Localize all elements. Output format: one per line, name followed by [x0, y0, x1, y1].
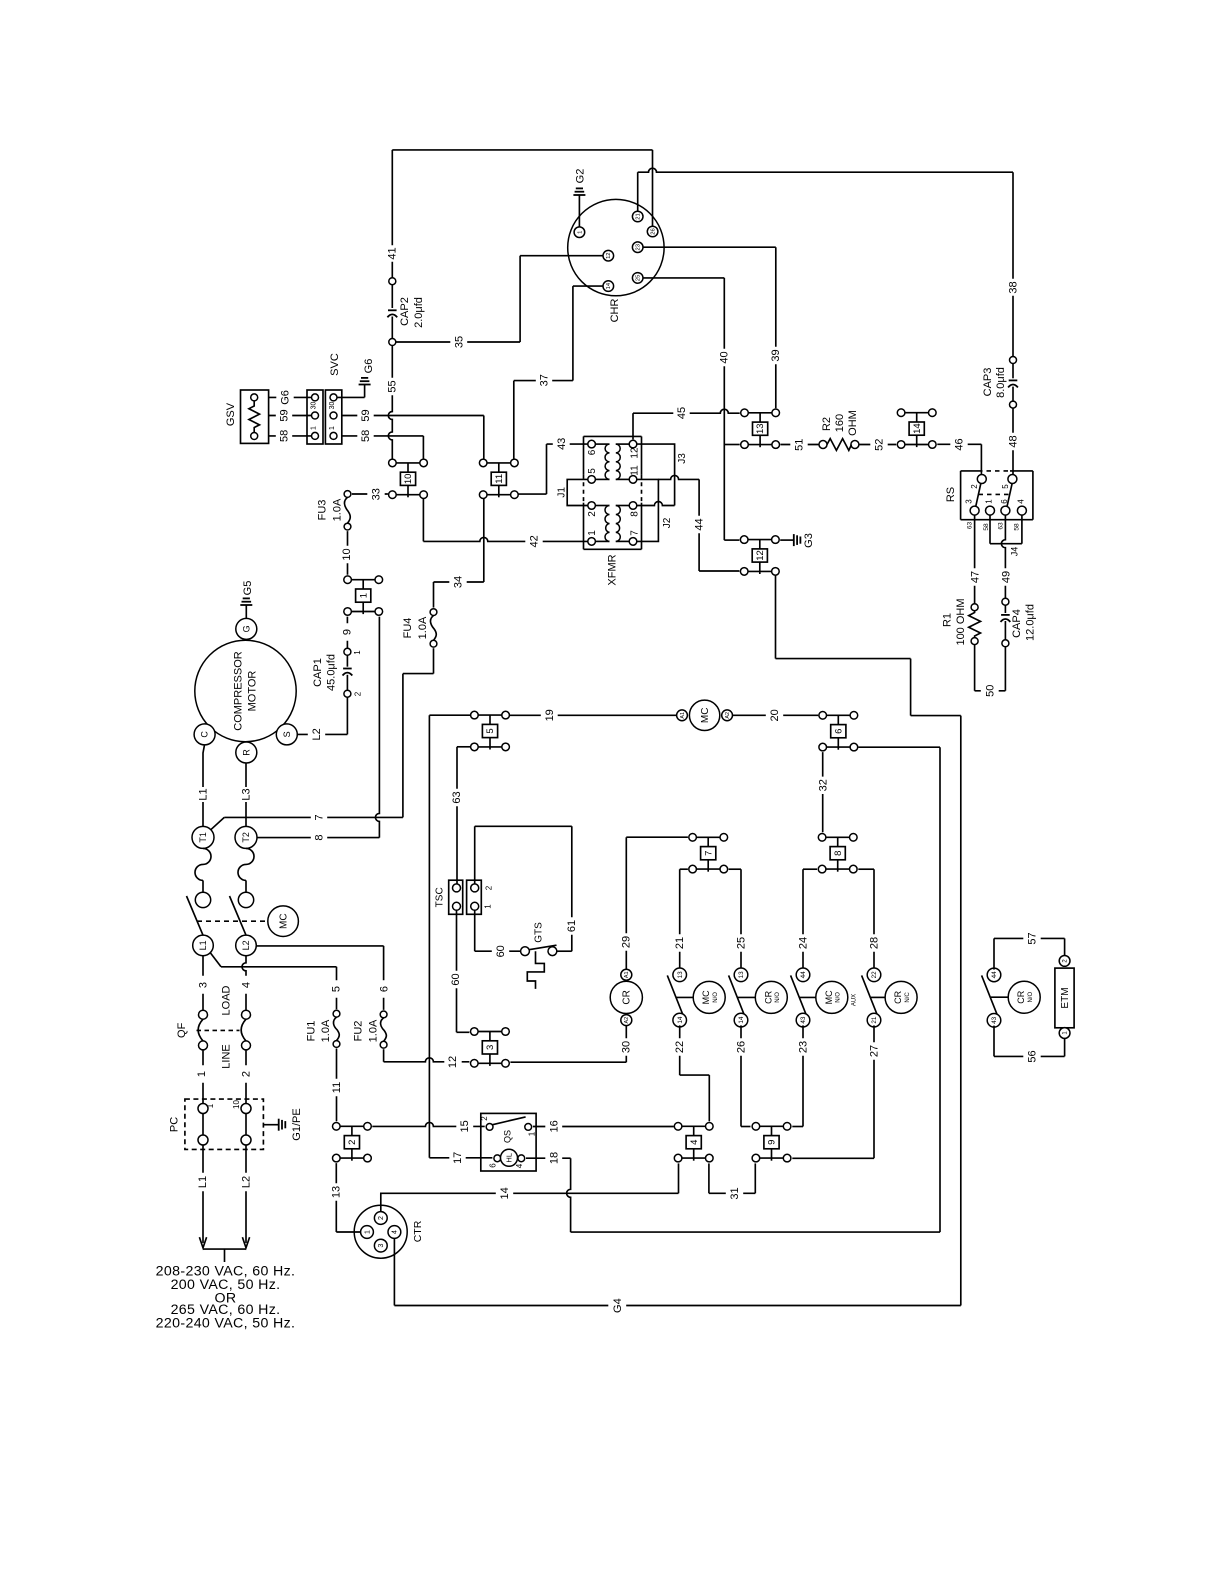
svg-text:14: 14	[606, 282, 612, 289]
svg-text:N/O: N/O	[1028, 992, 1034, 1003]
svg-text:XFMR: XFMR	[607, 554, 619, 585]
terminal block 12	[748, 539, 772, 541]
fuse FU2	[381, 1018, 387, 1042]
svg-text:QF: QF	[176, 1022, 188, 1038]
svg-text:7: 7	[314, 814, 326, 820]
XFMR pin 12	[629, 440, 637, 448]
svg-text:1: 1	[206, 1103, 215, 1108]
svg-text:AUX: AUX	[851, 994, 857, 1006]
svg-text:58: 58	[279, 430, 291, 442]
svg-text:14: 14	[738, 1016, 745, 1024]
svg-text:9: 9	[767, 1140, 778, 1145]
svg-text:1: 1	[364, 1230, 371, 1234]
ground G3	[793, 534, 795, 546]
svg-text:14: 14	[677, 1016, 684, 1024]
ETM pin 2	[1059, 956, 1070, 967]
wire 40	[643, 277, 725, 279]
terminal block 6	[827, 714, 851, 716]
svg-text:24: 24	[797, 937, 809, 949]
RS pin 4	[1017, 506, 1026, 515]
wire L1 supply	[202, 1145, 204, 1243]
svg-text:59: 59	[360, 409, 372, 421]
wire 59	[342, 415, 484, 417]
wire 16	[533, 1126, 674, 1128]
svg-text:LOAD: LOAD	[221, 985, 233, 1015]
svg-text:28: 28	[868, 937, 880, 949]
svg-text:J4: J4	[1010, 547, 1020, 557]
CTR pin 2	[374, 1212, 387, 1225]
svg-text:60: 60	[450, 973, 462, 985]
svg-text:T1: T1	[198, 832, 208, 843]
wire G4 rail	[960, 716, 962, 1306]
svg-text:58: 58	[1013, 523, 1020, 531]
wire 32	[822, 752, 824, 832]
wire 46	[937, 443, 981, 445]
wire 47	[974, 515, 976, 604]
svg-text:3: 3	[378, 1244, 385, 1248]
terminal block 3	[478, 1031, 502, 1033]
svg-text:41: 41	[387, 247, 399, 259]
svg-text:13: 13	[331, 1186, 343, 1198]
svg-text:N/O: N/O	[775, 992, 781, 1003]
svg-text:37: 37	[539, 374, 551, 386]
svg-text:1: 1	[358, 593, 369, 598]
svg-text:16: 16	[548, 1120, 560, 1132]
svg-text:33: 33	[371, 488, 383, 500]
wire 60 to block 3	[456, 910, 458, 1032]
wire 26	[740, 1025, 742, 1126]
wire 38	[637, 172, 639, 211]
supply arrows	[199, 1237, 206, 1248]
jumper J3	[637, 444, 675, 505]
svg-text:2: 2	[970, 484, 979, 489]
terminal block 8	[826, 836, 850, 838]
svg-text:A2: A2	[725, 712, 731, 719]
terminal block 4	[682, 1125, 706, 1127]
svg-text:11: 11	[331, 1082, 343, 1093]
wire 19	[510, 714, 677, 716]
svg-text:MOTOR: MOTOR	[246, 671, 258, 712]
svg-text:6: 6	[587, 449, 598, 455]
svg-text:40: 40	[719, 351, 731, 363]
svg-text:1: 1	[353, 650, 362, 655]
svg-text:8: 8	[629, 511, 640, 517]
compressor motor	[195, 640, 296, 741]
svg-text:G1/PE: G1/PE	[291, 1108, 303, 1140]
svg-text:LINE: LINE	[221, 1044, 233, 1068]
wire 41	[392, 149, 652, 151]
svg-text:L2: L2	[241, 940, 251, 950]
wire 58	[342, 435, 424, 437]
svg-text:3: 3	[485, 1045, 496, 1050]
svg-text:160: 160	[834, 414, 846, 432]
connector CHR	[568, 199, 664, 295]
svg-text:48: 48	[1007, 435, 1019, 447]
svg-text:26: 26	[651, 228, 657, 234]
svg-text:21: 21	[636, 213, 642, 219]
wire G to ground G5	[245, 605, 247, 619]
terminal block 13	[748, 412, 772, 414]
svg-text:CHR: CHR	[609, 299, 621, 323]
wire 1	[202, 1050, 204, 1104]
ground G5	[240, 604, 252, 606]
svg-text:FU2: FU2	[353, 1021, 365, 1042]
svg-text:C: C	[200, 731, 210, 738]
svg-text:1: 1	[577, 231, 583, 234]
contact CR N/C	[862, 975, 878, 1015]
svg-text:2: 2	[485, 885, 494, 890]
capacitor CAP4	[1002, 598, 1009, 605]
CTR pin 1	[361, 1226, 374, 1239]
terminal block 7	[696, 836, 720, 838]
svg-text:26: 26	[735, 1041, 747, 1053]
capacitor CAP1	[344, 648, 351, 655]
contact MC N/O AUX	[791, 975, 807, 1015]
svg-text:13: 13	[755, 423, 766, 434]
wire 21	[680, 868, 688, 870]
wire 39	[643, 246, 776, 248]
ETM pin 1	[1059, 1028, 1070, 1039]
svg-text:CAP1: CAP1	[312, 658, 324, 687]
switch QS box	[481, 1113, 536, 1171]
svg-text:10: 10	[232, 1100, 241, 1109]
svg-text:FU1: FU1	[305, 1021, 317, 1042]
svg-text:23: 23	[797, 1041, 809, 1053]
wire 30	[625, 1025, 627, 1062]
svg-text:TSC: TSC	[435, 887, 446, 907]
svg-text:CR: CR	[1016, 990, 1026, 1003]
svg-text:8.0μfd: 8.0μfd	[995, 367, 1007, 398]
svg-text:1: 1	[196, 1071, 208, 1077]
svg-text:G3: G3	[803, 533, 815, 548]
svg-text:7: 7	[629, 530, 640, 536]
svg-text:8: 8	[314, 835, 326, 841]
svg-text:27: 27	[868, 1045, 880, 1057]
svg-text:1: 1	[527, 1131, 536, 1136]
svg-text:R2: R2	[821, 417, 833, 431]
XFMR pin 5	[588, 476, 596, 484]
svg-text:G6: G6	[280, 390, 292, 405]
svg-text:1.0A: 1.0A	[331, 498, 343, 521]
wire 51	[781, 444, 820, 446]
motor terminal C	[194, 724, 215, 745]
svg-text:MC: MC	[701, 990, 711, 1004]
svg-text:35: 35	[453, 336, 465, 348]
svg-text:R1: R1	[942, 613, 954, 627]
svg-text:14: 14	[912, 423, 923, 434]
svg-text:L2: L2	[311, 728, 323, 740]
svg-text:61: 61	[566, 920, 578, 932]
wire 25	[729, 868, 741, 870]
svg-text:2: 2	[378, 1216, 385, 1220]
svg-text:63: 63	[451, 791, 463, 803]
wire 37	[573, 285, 603, 287]
XFMR pin 8	[629, 502, 637, 510]
wire 17 riser	[429, 714, 470, 716]
svg-text:G6: G6	[363, 359, 375, 374]
svg-text:R: R	[241, 749, 251, 756]
terminal block 10	[396, 462, 420, 464]
XFMR primary winding B	[595, 505, 609, 507]
svg-text:25: 25	[636, 275, 642, 281]
svg-text:43: 43	[991, 1016, 998, 1024]
terminal block 14	[905, 412, 929, 414]
RS blade 3-2	[976, 484, 981, 507]
wire 49	[1001, 515, 1005, 598]
svg-text:12: 12	[606, 252, 612, 258]
overload T1	[192, 826, 214, 848]
jumper J2	[637, 479, 659, 541]
svg-text:OHM: OHM	[847, 410, 859, 436]
XFMR pin 6	[588, 440, 596, 448]
svg-text:CAP4: CAP4	[1011, 609, 1023, 638]
coil MC A1	[677, 710, 688, 721]
svg-text:30: 30	[621, 1041, 633, 1053]
wire 56	[993, 1026, 995, 1057]
timer ETM	[1055, 968, 1074, 1028]
PC contact 1	[202, 1114, 204, 1136]
contact CR N/O	[729, 975, 745, 1015]
svg-text:11: 11	[494, 474, 505, 484]
svg-text:CR: CR	[893, 990, 903, 1003]
fuse FU1	[333, 1017, 339, 1041]
svg-text:2: 2	[587, 511, 598, 517]
svg-text:57: 57	[1026, 932, 1038, 944]
svg-text:59: 59	[279, 409, 291, 421]
wire 18	[526, 1157, 571, 1159]
RS pin 3	[970, 506, 979, 515]
svg-text:6: 6	[379, 986, 391, 992]
QS pin 1	[525, 1124, 532, 1131]
svg-text:50: 50	[984, 685, 996, 697]
wire to ground G6	[337, 396, 365, 398]
svg-text:FU3: FU3	[317, 500, 329, 521]
svg-text:47: 47	[969, 571, 981, 583]
relay coil CR	[610, 981, 642, 1013]
svg-text:19: 19	[544, 709, 556, 721]
svg-text:12: 12	[629, 447, 640, 459]
wire 10	[347, 531, 349, 575]
coil MC A2	[722, 710, 733, 721]
svg-text:N/C: N/C	[905, 992, 911, 1003]
motor terminal G	[236, 618, 257, 639]
svg-text:HL: HL	[505, 1153, 514, 1163]
QS pin 2	[486, 1124, 493, 1131]
wire 8	[257, 837, 379, 839]
transformer XFMR box	[584, 435, 642, 437]
svg-text:21: 21	[871, 1016, 878, 1024]
svg-text:44: 44	[693, 518, 705, 530]
wire 57	[993, 938, 995, 969]
svg-text:1: 1	[587, 530, 598, 536]
thermal switch GTS	[521, 947, 530, 956]
thermostat TSC box1	[449, 880, 463, 914]
svg-text:17: 17	[452, 1152, 464, 1164]
svg-text:2: 2	[354, 691, 363, 696]
XFMR primary winding A	[595, 443, 609, 445]
svg-text:42: 42	[529, 535, 541, 547]
XFMR secondary winding A	[616, 443, 629, 445]
svg-text:32: 32	[817, 779, 829, 791]
svg-text:PC: PC	[169, 1117, 181, 1132]
wire 18 rail	[858, 746, 940, 748]
CHR pin 14	[603, 281, 614, 292]
svg-text:30: 30	[311, 402, 318, 410]
XFMR pin 1	[588, 538, 596, 546]
svg-text:4: 4	[515, 1163, 524, 1168]
svg-text:5: 5	[1001, 484, 1010, 489]
svg-text:45: 45	[676, 407, 688, 419]
svg-text:MC: MC	[278, 913, 289, 929]
svg-text:52: 52	[873, 439, 885, 451]
svg-text:56: 56	[1026, 1050, 1038, 1062]
svg-text:12: 12	[447, 1056, 459, 1068]
RS pin 6	[1001, 506, 1010, 515]
terminal block 2	[340, 1125, 364, 1127]
wire 50	[974, 645, 976, 691]
wire 15	[372, 1122, 484, 1126]
svg-text:8: 8	[833, 851, 844, 856]
XFMR secondary winding B	[616, 505, 629, 507]
wire 5	[210, 953, 221, 967]
svg-text:49: 49	[1000, 571, 1012, 583]
svg-text:G2: G2	[574, 169, 586, 184]
RS pin 5	[1008, 475, 1017, 484]
svg-text:L2: L2	[241, 1176, 253, 1188]
MC contact stationary L1	[195, 892, 210, 907]
wire 35	[396, 341, 520, 343]
svg-text:31: 31	[729, 1187, 741, 1199]
svg-text:46: 46	[954, 438, 966, 450]
wire 9	[346, 617, 348, 649]
CHR pin 25	[632, 273, 643, 284]
wire 52	[859, 444, 896, 446]
wire 41 to CHR pin 26	[652, 150, 654, 227]
svg-text:6: 6	[1000, 499, 1009, 504]
wire 6	[256, 945, 383, 947]
wire 20	[733, 714, 819, 716]
wire 45	[632, 413, 634, 439]
svg-text:5: 5	[330, 986, 342, 992]
wire 63	[457, 746, 470, 748]
MC mechanical link	[197, 920, 268, 922]
svg-text:4: 4	[241, 982, 253, 988]
QS pin 6	[494, 1155, 501, 1162]
wire to ground G3	[780, 539, 794, 541]
terminal strip SVC-1	[307, 390, 323, 444]
contact CR N/O for ETM	[982, 975, 998, 1015]
connector CTR	[354, 1205, 407, 1258]
ground G2	[573, 194, 585, 196]
svg-text:FU4: FU4	[402, 618, 414, 639]
RS pin 1	[986, 506, 995, 515]
wire G4	[394, 1305, 960, 1307]
fuse FU3	[344, 497, 350, 523]
thermostat TSC box2	[467, 880, 482, 914]
wire L1 motor to T1	[203, 744, 205, 787]
contactor MC	[268, 906, 299, 937]
svg-text:11: 11	[629, 465, 640, 476]
lamp HL	[501, 1149, 518, 1166]
svg-text:L3: L3	[241, 788, 253, 800]
wire 42	[423, 537, 587, 541]
svg-text:MC: MC	[824, 990, 834, 1004]
svg-text:5: 5	[587, 468, 598, 474]
svg-text:2.0μfd: 2.0μfd	[413, 297, 425, 328]
svg-text:ETM: ETM	[1060, 987, 1071, 1008]
svg-text:CR: CR	[622, 990, 633, 1004]
CTR pin 3	[374, 1239, 387, 1252]
svg-text:L1: L1	[197, 1176, 209, 1188]
svg-text:60: 60	[495, 945, 507, 957]
svg-text:N/O: N/O	[713, 992, 719, 1003]
jumper J1	[567, 479, 588, 505]
svg-text:COMPRESSOR: COMPRESSOR	[233, 651, 245, 731]
MC contact stationary L2	[238, 892, 253, 907]
ground G6	[359, 384, 371, 386]
svg-text:T2: T2	[241, 832, 251, 843]
svg-text:29: 29	[621, 936, 633, 948]
svg-text:18: 18	[548, 1152, 560, 1164]
wire 4	[242, 956, 246, 1011]
wire 61	[474, 826, 476, 884]
motor terminal R	[236, 742, 257, 763]
svg-text:1: 1	[329, 426, 336, 430]
wire CHR pin1 to G2	[578, 195, 580, 227]
wire 22	[679, 1025, 681, 1075]
resistor R1	[971, 604, 978, 611]
svg-text:10: 10	[403, 474, 414, 485]
svg-text:N/O: N/O	[836, 992, 842, 1003]
wire 44	[658, 475, 699, 479]
svg-text:2: 2	[347, 1140, 358, 1145]
svg-text:63: 63	[998, 522, 1005, 530]
svg-text:J2: J2	[662, 517, 673, 528]
CHR pin 21	[632, 211, 643, 222]
wire L3 motor to T2	[245, 763, 247, 788]
svg-text:12.0μfd: 12.0μfd	[1025, 604, 1037, 641]
svg-text:20: 20	[769, 709, 781, 721]
svg-text:3: 3	[965, 499, 974, 504]
svg-text:58: 58	[983, 523, 990, 531]
svg-text:GSV: GSV	[225, 402, 237, 426]
RS blade 6-5	[1007, 484, 1012, 507]
svg-text:100 OHM: 100 OHM	[955, 598, 967, 645]
XFMR pin 7	[629, 538, 637, 546]
MC contact blade L2	[230, 896, 247, 935]
svg-text:10: 10	[341, 548, 353, 560]
svg-text:63: 63	[966, 522, 973, 530]
svg-text:44: 44	[991, 971, 998, 979]
svg-text:GTS: GTS	[534, 922, 545, 943]
svg-text:4: 4	[392, 1230, 399, 1234]
svg-text:L1: L1	[198, 788, 210, 800]
terminal block 11	[487, 462, 511, 464]
svg-text:6: 6	[833, 729, 844, 734]
capacitor CAP2	[389, 278, 396, 285]
svg-text:4: 4	[1017, 499, 1026, 504]
overload T2	[235, 826, 257, 848]
svg-text:43: 43	[556, 438, 568, 450]
wire L2	[346, 697, 348, 734]
svg-text:MC: MC	[700, 708, 711, 724]
wire 13	[335, 1163, 337, 1232]
svg-text:7: 7	[703, 851, 714, 856]
svg-text:1: 1	[985, 499, 994, 504]
svg-text:S: S	[282, 731, 292, 737]
wire 27	[873, 1025, 875, 1158]
svg-text:4: 4	[689, 1140, 700, 1145]
